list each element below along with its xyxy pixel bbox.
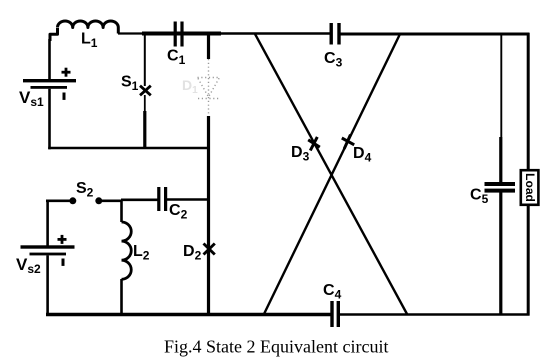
caption Fig.4 State 2 Equivalent circuit [164,337,388,357]
inductor L2 [122,222,132,279]
diode D3 cross [308,137,320,151]
diode D2 cross [204,244,215,255]
wire top thick segment around C1 [142,32,221,36]
wire L2 upper lead [120,200,123,223]
label plus Vs2 [58,235,67,244]
wire right border lower [527,205,530,316]
capacitor C3 [330,23,341,45]
diode D1 faint dotted [198,59,221,116]
wire top middle segment to C3 [221,32,331,34]
svg-text:Fig.4 State 2 Equivalent circu: Fig.4 State 2 Equivalent circuit [164,337,388,357]
inductor L1 [50,21,118,41]
label Vs1 [19,88,44,109]
switch S2 contact dot left [69,197,76,204]
wire D1 branch solid top [207,34,210,60]
battery Vs1 [23,79,76,89]
wire diagonal B top-right to bottom-left [264,34,400,314]
wire Vs2 lower lead [46,255,49,316]
label D3 [291,144,310,164]
label C3 [324,50,343,70]
capacitor C2 [157,187,167,211]
wire C2 to D2 branch [167,198,210,201]
wire bottom left thick segment [46,313,331,316]
label C2 [169,202,188,222]
label L1 [81,31,98,51]
wire Vs1 upper lead [48,39,51,80]
capacitor C1 [174,22,184,47]
wire Vs2 upper lead [46,200,49,247]
label C5 [470,187,489,207]
wire C5 branch lower [499,193,502,316]
wire L2 lower lead [120,279,123,315]
wire top right segment from C3 to corner [340,33,530,36]
wire middle horizontal (Vs1 loop bottom) [48,147,209,150]
label D4 [353,145,372,165]
wire D1-D2 branch vertical [207,116,210,315]
capacitor C4 [330,301,340,327]
wire S1 branch upper [144,34,146,87]
label I Vs1 [63,93,66,100]
wire diagonal A top-left to bottom-right [255,34,407,314]
wire C5 branch upper thin [500,34,502,137]
wire top left segment from L1 to node [118,32,144,34]
label plus Vs1 [62,68,71,77]
wire Vs1 lower lead [48,89,51,150]
label S1 [121,74,139,94]
load box [521,170,539,205]
capacitor C5 [485,182,516,193]
label I Vs2 [62,259,65,266]
wire bottom right segment [339,313,530,316]
label Vs2 [16,255,41,276]
wire S2 left lead [46,200,70,203]
label S2 [76,180,94,200]
wire S1 branch lower thick [143,111,146,149]
label D2 [183,243,202,263]
wire S2 to C2 [102,200,158,201]
wire S1 branch middle thin [144,95,146,111]
label C4 [323,282,342,302]
label D1 faint [182,77,198,96]
switch S2 contact dot right [95,197,102,204]
battery Vs2 [21,245,75,255]
svg-text:Load: Load [523,173,537,202]
switch S1 cross [140,86,151,96]
label Load [523,173,537,202]
wire right border upper [527,33,530,170]
wire C5 branch upper thick [499,137,502,183]
diode D4 cross [342,135,354,149]
label C1 [167,48,186,68]
label L2 [133,243,150,263]
